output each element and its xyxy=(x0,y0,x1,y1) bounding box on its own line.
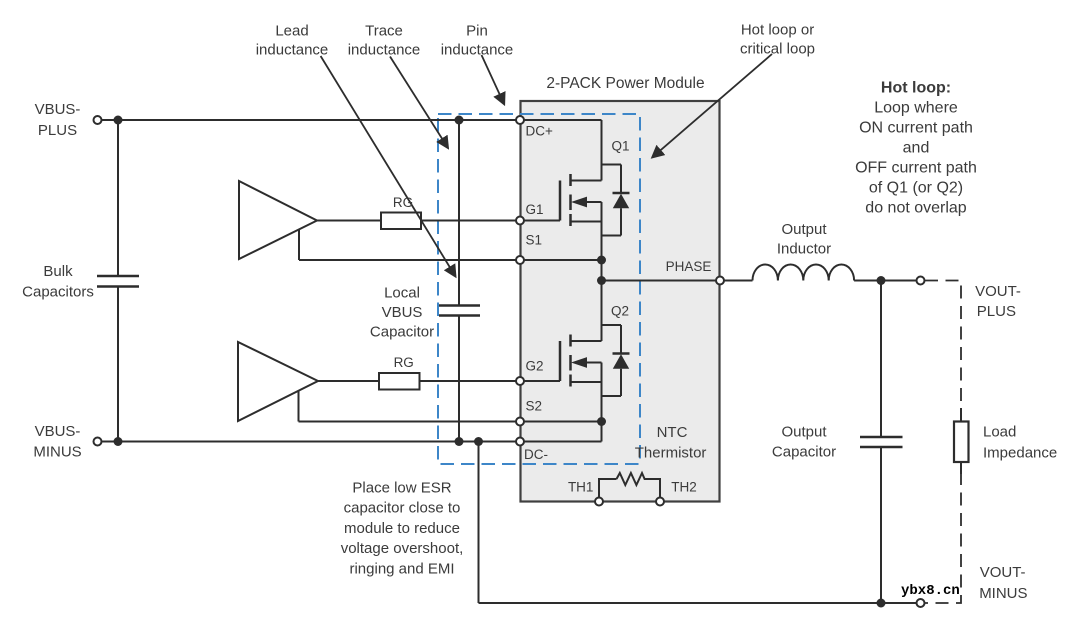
wire load impedance stubs xyxy=(960,408,962,474)
resistor RG1 xyxy=(381,213,421,230)
svg-text:Lead: Lead xyxy=(275,22,308,39)
svg-text:RG: RG xyxy=(394,355,414,370)
svg-text:Capacitor: Capacitor xyxy=(370,324,434,341)
transistor Q2 xyxy=(560,281,621,442)
pin DC+ xyxy=(516,116,524,124)
inductor output inductor L1 xyxy=(753,264,855,280)
wire bulk capacitor branch bottom xyxy=(117,287,119,442)
svg-text:Pin: Pin xyxy=(466,22,488,39)
capacitor local VBUS capacitor xyxy=(439,306,480,316)
svg-text:Hot loop or: Hot loop or xyxy=(741,21,814,38)
svg-text:of Q1 (or Q2): of Q1 (or Q2) xyxy=(869,179,963,196)
note hot loop definition xyxy=(855,79,977,216)
node junction VOUT- xyxy=(877,599,886,608)
arrow hot loop pointer xyxy=(652,54,772,157)
svg-text:and: and xyxy=(903,139,930,156)
svg-text:Q2: Q2 xyxy=(611,303,629,318)
svg-text:voltage overshoot,: voltage overshoot, xyxy=(341,540,464,557)
svg-text:G1: G1 xyxy=(526,202,544,217)
wire S1 return drop xyxy=(298,229,300,260)
2-PACK power module body U1 xyxy=(521,101,720,502)
wire VBUS-MINUS rail (node DC-) xyxy=(102,441,602,443)
svg-text:G2: G2 xyxy=(526,359,544,374)
node junction VBUS- bulk xyxy=(114,437,123,446)
svg-text:Load: Load xyxy=(983,423,1016,440)
transistor Q1 xyxy=(560,120,621,281)
terminal VBUS-MINUS xyxy=(94,438,102,446)
svg-text:Thermistor: Thermistor xyxy=(635,444,707,461)
wire dashed load to VOUT-MINUS xyxy=(925,472,961,603)
svg-text:Local: Local xyxy=(384,284,420,301)
wire dashed VOUT-PLUS to load xyxy=(925,281,961,411)
wire S2 return drop xyxy=(298,391,300,422)
capacitor output capacitor xyxy=(860,437,903,447)
op-amp gate driver 2 xyxy=(238,342,318,421)
svg-text:Bulk: Bulk xyxy=(43,263,73,280)
svg-text:inductance: inductance xyxy=(256,41,329,58)
node junction S1 xyxy=(597,256,606,265)
wire local VBUS capacitor branch top xyxy=(458,120,460,306)
svg-text:ON current path: ON current path xyxy=(859,119,973,136)
diode body diode D1 xyxy=(602,165,630,236)
thermistor NTC TH xyxy=(599,473,660,502)
resistor load impedance xyxy=(954,422,969,463)
svg-text:Inductor: Inductor xyxy=(777,241,831,258)
svg-text:TH1: TH1 xyxy=(568,480,594,495)
svg-text:critical loop: critical loop xyxy=(740,40,815,57)
svg-text:VBUS: VBUS xyxy=(382,304,423,321)
svg-text:inductance: inductance xyxy=(348,41,421,58)
hot loop dashed boundary xyxy=(438,114,640,464)
arrow trace inductance pointer xyxy=(390,57,448,149)
pin S2 xyxy=(516,418,524,426)
svg-text:Output: Output xyxy=(781,221,827,238)
node junction VBUS+ local cap xyxy=(455,116,464,125)
svg-text:ringing and EMI: ringing and EMI xyxy=(349,560,454,577)
svg-text:capacitor close to: capacitor close to xyxy=(344,500,461,517)
svg-text:Loop where: Loop where xyxy=(874,99,958,116)
svg-text:VOUT-: VOUT- xyxy=(975,283,1021,300)
pin TH2 xyxy=(656,498,664,506)
svg-text:PLUS: PLUS xyxy=(977,303,1016,320)
node junction VBUS+ bulk xyxy=(114,116,123,125)
wire output capacitor branch bottom xyxy=(880,447,882,603)
svg-text:Place low ESR: Place low ESR xyxy=(352,479,451,496)
wire S1 xyxy=(299,259,602,261)
svg-text:do not overlap: do not overlap xyxy=(865,199,967,216)
svg-text:VBUS-: VBUS- xyxy=(35,423,81,440)
svg-text:S2: S2 xyxy=(526,399,543,414)
svg-text:module to reduce: module to reduce xyxy=(344,520,460,537)
wire G2 gate wire xyxy=(318,380,560,382)
node junction VBUS- local cap xyxy=(455,437,464,446)
wire output capacitor branch top xyxy=(880,281,882,438)
pin PHASE xyxy=(716,277,724,285)
node junction PHASE xyxy=(597,276,606,285)
svg-text:Hot loop:: Hot loop: xyxy=(881,79,951,96)
svg-text:Output: Output xyxy=(781,423,827,440)
node junction VBUS- return xyxy=(474,437,483,446)
svg-text:PHASE: PHASE xyxy=(666,259,712,274)
svg-text:Impedance: Impedance xyxy=(983,445,1057,462)
pin S1 xyxy=(516,256,524,264)
terminal VOUT-MINUS xyxy=(917,599,925,607)
node junction S2 xyxy=(597,417,606,426)
pin G1 xyxy=(516,217,524,225)
wire VBUS-PLUS rail (node DC+) xyxy=(102,119,602,121)
svg-text:RG: RG xyxy=(393,195,413,210)
arrow pin inductance pointer xyxy=(482,55,505,104)
svg-text:PLUS: PLUS xyxy=(38,122,77,139)
svg-text:DC+: DC+ xyxy=(526,124,553,139)
wire G1 gate wire xyxy=(317,220,560,222)
svg-text:ybx8.cn: ybx8.cn xyxy=(901,583,960,599)
note place low ESR capacitor xyxy=(341,479,464,577)
wire inductor to VOUT-PLUS xyxy=(854,280,916,282)
svg-text:Q1: Q1 xyxy=(612,138,630,153)
terminal VBUS-PLUS xyxy=(94,116,102,124)
svg-text:inductance: inductance xyxy=(441,41,514,58)
wire local VBUS capacitor branch bottom xyxy=(458,316,460,442)
pin DC- xyxy=(516,438,524,446)
wire bottom return rail xyxy=(479,602,917,604)
svg-text:VOUT-: VOUT- xyxy=(980,564,1026,581)
capacitor bulk capacitors xyxy=(97,276,139,287)
resistor RG2 xyxy=(379,373,420,390)
wire S2 xyxy=(299,421,602,423)
pin TH1 xyxy=(595,498,603,506)
op-amp gate driver 1 xyxy=(239,181,317,259)
wire bulk capacitor branch top xyxy=(117,120,119,276)
svg-text:2-PACK Power Module: 2-PACK Power Module xyxy=(546,75,704,92)
wire DC- return drop xyxy=(478,442,480,604)
pin G2 xyxy=(516,377,524,385)
svg-text:Capacitor: Capacitor xyxy=(772,443,836,460)
svg-text:Capacitors: Capacitors xyxy=(22,284,94,301)
node junction VOUT+ xyxy=(877,276,886,285)
svg-text:VBUS-: VBUS- xyxy=(35,101,81,118)
arrow lead inductance pointer xyxy=(321,56,456,277)
svg-text:S1: S1 xyxy=(526,233,543,248)
terminal VOUT-PLUS xyxy=(917,277,925,285)
diode body diode D2 xyxy=(602,325,630,396)
svg-text:NTC: NTC xyxy=(657,424,688,441)
svg-text:TH2: TH2 xyxy=(671,480,697,495)
svg-text:DC-: DC- xyxy=(524,447,548,462)
svg-text:MINUS: MINUS xyxy=(979,585,1027,602)
svg-text:OFF current path: OFF current path xyxy=(855,159,977,176)
svg-text:MINUS: MINUS xyxy=(33,443,81,460)
svg-text:Trace: Trace xyxy=(365,22,403,39)
wire PHASE xyxy=(602,280,753,282)
